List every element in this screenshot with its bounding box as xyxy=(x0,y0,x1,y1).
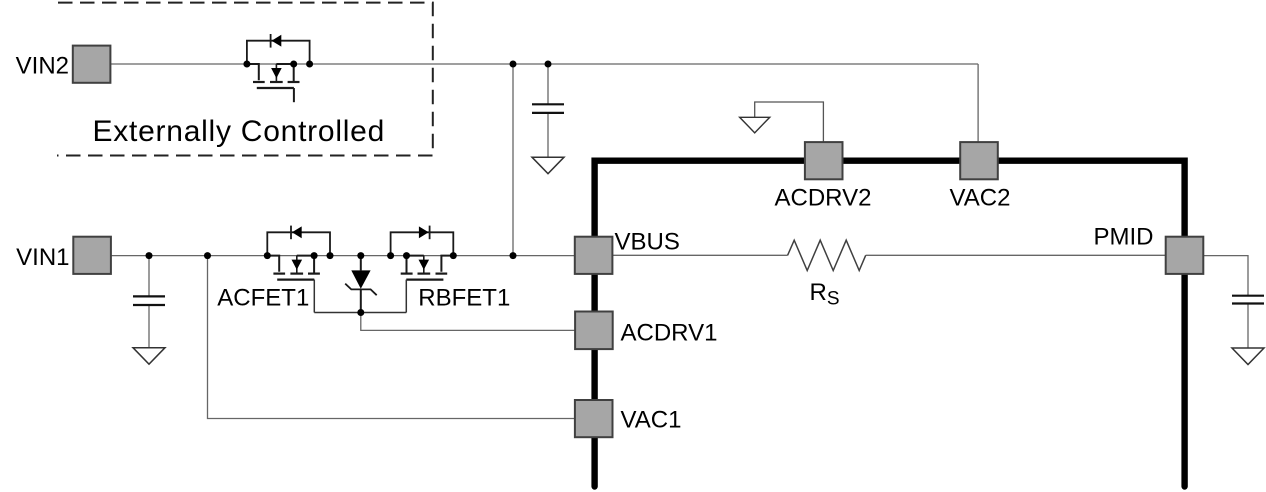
zener diode D1 body xyxy=(351,270,370,288)
junction dot zener/gate node xyxy=(357,309,364,316)
port VIN2 xyxy=(73,46,111,83)
capacitor C3 PMID plate bottom xyxy=(1232,302,1264,304)
port ACDRV2 xyxy=(805,142,843,179)
capacitor C1 VIN2 plate top xyxy=(532,103,564,105)
transistor Q3 externally controlled FET xyxy=(243,34,313,88)
wire ACDRV2 to ground xyxy=(755,102,824,142)
ground below C1 xyxy=(532,157,564,174)
resistor RS zigzag xyxy=(788,240,866,270)
svg-text:VBUS: VBUS xyxy=(615,228,680,255)
wire VIN1 cap to ground xyxy=(148,305,150,348)
svg-text:ACFET1: ACFET1 xyxy=(217,285,309,312)
wire VIN1 net horizontal xyxy=(111,255,575,257)
svg-text:ACDRV1: ACDRV1 xyxy=(621,320,718,347)
capacitor C2 VIN1 plate bottom xyxy=(133,304,165,306)
transistor ACFET1 xyxy=(264,226,334,280)
svg-text:ACDRV2: ACDRV2 xyxy=(775,185,872,212)
ground below C2 xyxy=(133,348,165,365)
junction dot VIN2 cap xyxy=(545,61,552,68)
svg-text:VAC1: VAC1 xyxy=(621,407,682,434)
port VAC1 xyxy=(575,400,613,437)
svg-text:VAC2: VAC2 xyxy=(950,185,1011,212)
wire output cap to ground xyxy=(1247,304,1249,349)
thick VBUS bus bar xyxy=(595,161,1185,487)
port VIN1 xyxy=(73,237,111,274)
ground below C3 xyxy=(1232,348,1264,365)
transistor Q3 gate stub xyxy=(293,88,295,102)
zener diode D1 cathode bar xyxy=(345,284,377,296)
transistor RBFET1 (mirrored) xyxy=(387,226,457,280)
junction dot zener top xyxy=(357,252,364,259)
capacitor C3 PMID plate top xyxy=(1232,295,1264,297)
gate chain wire between ACFET1 and RBFET1 gates xyxy=(314,312,406,314)
zener diode D1 shaft top xyxy=(360,256,362,271)
junction dot VIN1 cap xyxy=(146,252,153,259)
transistor ACFET1 gate lead xyxy=(313,280,315,313)
port VAC2 xyxy=(960,142,998,179)
wire VIN2 net horizontal xyxy=(110,63,978,65)
svg-text:Externally Controlled: Externally Controlled xyxy=(93,115,386,148)
port PMID xyxy=(1166,237,1204,274)
wire RS right to PMID xyxy=(866,254,1166,256)
junction dot VIN2 drop at VIN2 wire xyxy=(510,61,517,68)
junction dot VIN2 drop at VBUS wire xyxy=(510,252,517,259)
capacitor C2 VIN1 plate top xyxy=(133,295,165,297)
wire PMID to output cap xyxy=(1204,256,1249,296)
port VBUS xyxy=(575,237,613,274)
wire ACDRV1 net xyxy=(361,313,575,331)
wire VAC1 net xyxy=(208,256,576,419)
svg-text:VIN1: VIN1 xyxy=(16,244,69,271)
wire VIN2 drop to VBUS net xyxy=(512,64,514,256)
wire VIN1 cap stub xyxy=(148,256,150,297)
svg-text:VIN2: VIN2 xyxy=(16,52,69,79)
wire VIN2 cap stub xyxy=(547,64,549,104)
dashed box "Externally Controlled" xyxy=(57,3,433,156)
junction dot VAC1 branch xyxy=(204,252,211,259)
capacitor C1 VIN2 plate bottom xyxy=(532,112,564,114)
wire VIN2 cap to ground xyxy=(547,113,549,157)
svg-text:PMID: PMID xyxy=(1094,224,1154,251)
zener diode D1 shaft bottom xyxy=(360,289,362,312)
wire VBUS to RS left xyxy=(613,254,788,256)
svg-text:RBFET1: RBFET1 xyxy=(418,285,510,312)
port ACDRV1 xyxy=(575,312,613,350)
wire VIN2 net elbow down to VAC2 xyxy=(977,64,979,143)
ground at ACDRV2 xyxy=(740,117,770,133)
transistor RBFET1 gate lead xyxy=(405,280,407,313)
